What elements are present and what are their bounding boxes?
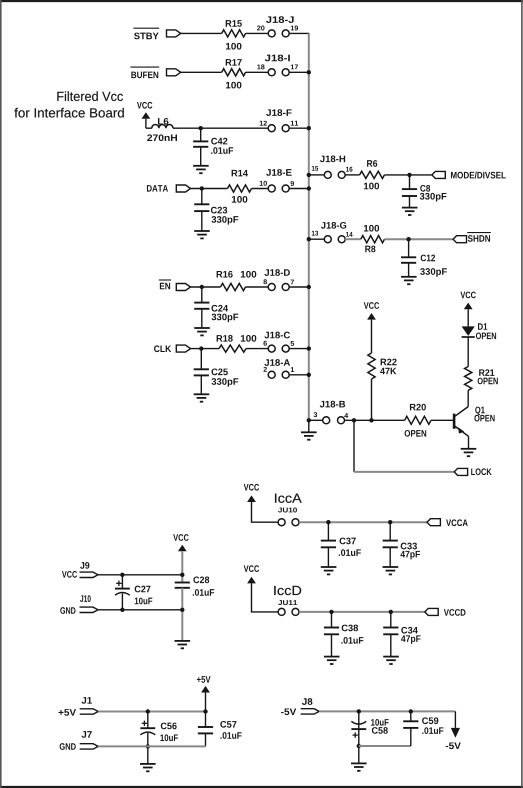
VCC arrow — [464, 303, 473, 310]
resistor R15 100 — [222, 20, 246, 49]
ground — [194, 328, 210, 335]
wire — [200, 147, 202, 166]
junction — [307, 285, 311, 289]
power label VCC — [244, 484, 259, 491]
VCC arrow — [178, 545, 187, 552]
wire — [200, 349, 202, 370]
connector J18-G pin 14 — [338, 236, 345, 243]
pin number 1 — [291, 367, 294, 372]
connector label J18-I — [265, 55, 290, 62]
wire — [289, 127, 309, 129]
wire — [181, 588, 183, 641]
wire — [389, 547, 391, 567]
input terminal CLK — [176, 345, 190, 352]
wire — [409, 196, 411, 208]
connector J18-D pin 7 — [282, 284, 289, 291]
pin number 19 — [291, 26, 298, 31]
connector J18-A pin 2 — [268, 371, 275, 378]
wire — [467, 309, 469, 326]
wire — [201, 309, 203, 328]
wire — [358, 729, 360, 763]
net label DATA — [147, 185, 168, 192]
connector J18-J pin 19 — [282, 30, 289, 37]
junction — [307, 70, 311, 74]
capacitor C12 330pF — [401, 255, 447, 277]
wire — [309, 419, 323, 421]
pin number 10 — [260, 181, 267, 186]
wire — [371, 379, 373, 420]
pin number 15 — [312, 166, 318, 171]
wire — [98, 711, 205, 713]
wire — [98, 609, 182, 611]
pin number 5 — [291, 341, 295, 346]
wire — [246, 32, 269, 34]
wire — [252, 502, 279, 522]
header J9 — [80, 572, 99, 577]
wire — [201, 211, 203, 231]
wire — [173, 127, 268, 129]
input terminal EN — [176, 284, 190, 291]
VCC arrow +5V — [201, 686, 210, 693]
connector J18-B pin 3 — [323, 417, 330, 424]
wire — [331, 634, 333, 656]
power label VCC — [173, 534, 188, 541]
capacitor C8 330pF — [402, 185, 447, 202]
wire — [299, 611, 425, 613]
wire — [309, 174, 325, 176]
wire — [359, 745, 411, 747]
capacitor C57 .01uF — [198, 721, 242, 739]
connector J18-I pin 17 — [282, 69, 289, 76]
junction — [388, 520, 392, 524]
ground — [402, 208, 418, 215]
capacitor C58 10uF polarized — [351, 711, 388, 737]
section label IccD — [274, 586, 301, 595]
wire — [181, 551, 183, 582]
connector label J10 — [80, 595, 91, 602]
wire — [246, 286, 269, 288]
ground — [140, 764, 156, 771]
wire — [331, 612, 333, 628]
wire — [252, 583, 279, 612]
connector J18-H pin 16 — [338, 171, 345, 178]
wire — [289, 32, 309, 34]
connector label J1 — [82, 697, 92, 704]
pin number 18 — [257, 64, 264, 69]
jumper JU11 pin 2 — [292, 608, 299, 615]
header J10 — [80, 607, 99, 612]
connector label J18-J — [266, 16, 294, 23]
pin number 20 — [257, 26, 264, 31]
wire — [205, 733, 207, 746]
input terminal STBY — [167, 30, 181, 37]
junction — [369, 418, 373, 422]
wire — [408, 239, 410, 257]
wire collector — [467, 390, 469, 406]
pin number 3 — [314, 412, 318, 417]
VCC arrow — [247, 577, 256, 584]
junction — [307, 237, 311, 241]
net label +5V — [59, 709, 77, 716]
junction — [146, 744, 150, 748]
wire — [371, 320, 373, 353]
resistor R17 100 — [222, 59, 246, 88]
net label BUFEN — [130, 67, 159, 78]
junction — [326, 520, 330, 524]
wire — [147, 733, 149, 764]
connector J18-C pin 6 — [268, 345, 275, 352]
junction — [200, 186, 204, 190]
wire — [289, 286, 309, 288]
wire — [289, 348, 309, 350]
wire — [385, 174, 432, 176]
section label IccA — [275, 494, 302, 503]
resistor R6 100 — [360, 160, 385, 189]
connector label J18-B — [320, 401, 345, 408]
transistor Q1 OPEN — [454, 407, 494, 437]
capacitor C37 .01uF — [321, 538, 361, 556]
wire — [201, 287, 203, 303]
net label CLK — [154, 345, 171, 352]
header J8 — [301, 709, 320, 714]
wire — [181, 32, 222, 34]
connector J18-F pin 12 — [268, 125, 275, 132]
wire to LOCK — [354, 420, 454, 472]
resistor R21 OPEN — [465, 367, 498, 391]
note text line 2 — [14, 108, 123, 118]
capacitor C23 330pF — [194, 204, 238, 224]
ground — [321, 567, 337, 574]
connector J18-C pin 5 — [282, 345, 289, 352]
junction — [203, 709, 207, 713]
pin number 12 — [260, 121, 267, 126]
capacitor C34 47pF — [383, 627, 420, 644]
wire — [467, 337, 469, 367]
wire — [390, 612, 392, 628]
ground — [301, 432, 317, 439]
ground — [383, 567, 399, 574]
wire — [309, 238, 325, 240]
wire — [327, 547, 329, 567]
diode D1 OPEN — [462, 323, 496, 339]
resistor R20 OPEN — [405, 404, 431, 437]
header J1 — [80, 709, 99, 714]
input terminal DATA — [176, 185, 190, 192]
capacitor C33 47pF — [383, 541, 420, 560]
junction — [120, 608, 124, 612]
net label STBY — [133, 28, 159, 39]
pin number 16 — [346, 167, 352, 172]
output terminal VCCA — [427, 519, 440, 526]
wire — [289, 374, 309, 376]
power label +5V — [197, 676, 211, 683]
junction — [307, 173, 311, 177]
junction — [389, 610, 393, 614]
power label -5V — [446, 742, 461, 749]
connector label J18-H — [320, 155, 345, 162]
power label VCC — [364, 302, 379, 309]
pin number 6 — [263, 341, 266, 346]
output terminal SHDN — [453, 236, 466, 243]
pin number 17 — [291, 64, 298, 69]
connector J18-G pin 13 — [324, 236, 331, 243]
pin number 14 — [346, 232, 353, 237]
input terminal BUFEN — [167, 69, 181, 76]
output terminal MODE/DIVSEL — [432, 171, 445, 178]
wire — [98, 745, 205, 747]
junction — [200, 285, 204, 289]
output terminal VCCD — [425, 608, 438, 615]
connector label J9 — [80, 562, 89, 569]
connector J18-A pin 1 — [282, 371, 289, 378]
note text line 1 — [57, 91, 123, 101]
pin number 13 — [312, 231, 318, 236]
junction — [307, 186, 311, 190]
connector label J8 — [302, 698, 312, 705]
header J7 — [80, 744, 99, 749]
wire — [389, 522, 391, 540]
wire — [327, 522, 329, 540]
connector label J7 — [82, 731, 92, 738]
connector label J18-E — [266, 169, 291, 176]
junction — [406, 237, 410, 241]
VCC arrow — [247, 495, 256, 502]
wire — [191, 286, 221, 288]
connector J18-F pin 11 — [282, 125, 289, 132]
wire — [299, 521, 427, 523]
wire — [410, 711, 412, 746]
VCC arrow — [367, 313, 376, 320]
capacitor C25 330pF — [194, 368, 239, 386]
capacitor C28 .01uF — [175, 576, 214, 595]
resistor R22 47K — [368, 353, 397, 379]
wire — [409, 175, 411, 189]
wire — [385, 238, 454, 240]
wire — [390, 634, 392, 656]
wire — [289, 188, 309, 190]
junction — [409, 709, 413, 713]
net label GND — [60, 607, 75, 614]
capacitor C38 .01uF — [324, 625, 363, 644]
jumper JU11 pin 1 — [278, 608, 285, 615]
junction — [180, 573, 184, 577]
wire — [454, 711, 456, 728]
power label VCC — [460, 292, 475, 299]
pin number 11 — [291, 121, 298, 126]
wire bus ground stem — [308, 420, 310, 432]
ground — [175, 641, 191, 648]
connector label J18-F — [266, 109, 291, 116]
wire — [344, 419, 404, 421]
wire — [345, 238, 361, 240]
jumper label JU10 — [278, 508, 297, 513]
wire — [146, 119, 152, 128]
junction — [357, 744, 361, 748]
wire bus J18 — [308, 33, 311, 420]
pin number 7 — [291, 280, 294, 285]
ground — [194, 231, 210, 238]
net label GND — [60, 743, 76, 750]
resistor R16 100 — [217, 271, 257, 291]
ground — [401, 277, 417, 284]
net label MODE/DIVSEL — [451, 172, 506, 179]
wire — [246, 71, 269, 73]
inductor L6 270nH — [147, 118, 177, 141]
net label EN — [159, 280, 171, 289]
wire — [201, 189, 203, 205]
junction — [307, 126, 311, 130]
connector J18-D pin 8 — [268, 284, 275, 291]
pin number 2 — [263, 367, 266, 372]
power label VCC — [244, 565, 259, 572]
wire — [252, 188, 269, 190]
junction — [407, 173, 411, 177]
junction — [180, 608, 184, 612]
net label VCCD — [444, 609, 466, 616]
wire — [200, 375, 202, 394]
net label VCCA — [446, 519, 468, 526]
connector J18-B pin 4 — [338, 417, 345, 424]
wire — [191, 348, 220, 350]
net label VCC — [62, 571, 77, 578]
connector J18-J pin 20 — [268, 30, 275, 37]
wire — [408, 263, 410, 277]
ground — [194, 394, 210, 401]
capacitor C27 10uF polarized — [115, 575, 152, 604]
net label SHDN — [467, 233, 491, 242]
capacitor C59 .01uF — [403, 717, 443, 734]
resistor R8 100 — [361, 225, 385, 252]
output terminal LOCK — [454, 468, 467, 475]
connector label J18-D — [264, 269, 289, 276]
connector J18-E pin 10 — [268, 185, 275, 192]
net label -5V — [281, 708, 296, 715]
resistor R18 100 — [217, 335, 257, 352]
connector label J18-G — [321, 222, 346, 229]
power arrow -5V — [451, 728, 460, 738]
jumper JU10 pin 2 — [292, 519, 299, 526]
wire emitter — [468, 436, 470, 449]
ground — [461, 449, 477, 456]
ground — [193, 166, 209, 173]
wire — [319, 710, 455, 712]
junction node LOCK — [352, 418, 356, 422]
wire — [200, 128, 202, 141]
junction — [307, 418, 311, 422]
capacitor C42 .01uF — [193, 138, 233, 154]
ground — [351, 763, 367, 770]
wire — [246, 348, 268, 350]
jumper JU10 pin 1 — [278, 519, 285, 526]
jumper label JU11 — [278, 600, 297, 605]
pin number 4 — [344, 413, 348, 418]
connector J18-I pin 18 — [268, 69, 275, 76]
wire — [345, 174, 360, 176]
junction — [120, 573, 124, 577]
wire — [205, 693, 207, 728]
junction — [329, 610, 333, 614]
wire — [181, 71, 222, 73]
junction — [357, 709, 361, 713]
wire — [121, 593, 123, 609]
wire — [191, 188, 228, 190]
ground — [324, 657, 340, 664]
VCC arrow — [142, 112, 151, 119]
capacitor C24 330pF — [194, 303, 238, 323]
resistor R14 100 — [228, 170, 252, 203]
connector J18-H pin 15 — [324, 171, 331, 178]
wire — [431, 419, 453, 421]
junction — [146, 709, 150, 713]
pin number 8 — [263, 279, 267, 284]
junction — [307, 346, 311, 350]
connector label J18-C — [264, 332, 290, 339]
wire — [289, 71, 309, 73]
junction node filtered VCC — [199, 126, 203, 130]
pin number 9 — [291, 181, 294, 186]
net label LOCK — [471, 468, 491, 475]
junction — [199, 346, 203, 350]
connector J18-E pin 9 — [282, 185, 289, 192]
wire — [98, 574, 182, 576]
power label VCC — [137, 102, 152, 109]
junction — [307, 373, 311, 377]
ground — [383, 657, 399, 664]
connector label J18-A — [264, 359, 290, 366]
capacitor C56 10uF polarized — [140, 712, 178, 742]
